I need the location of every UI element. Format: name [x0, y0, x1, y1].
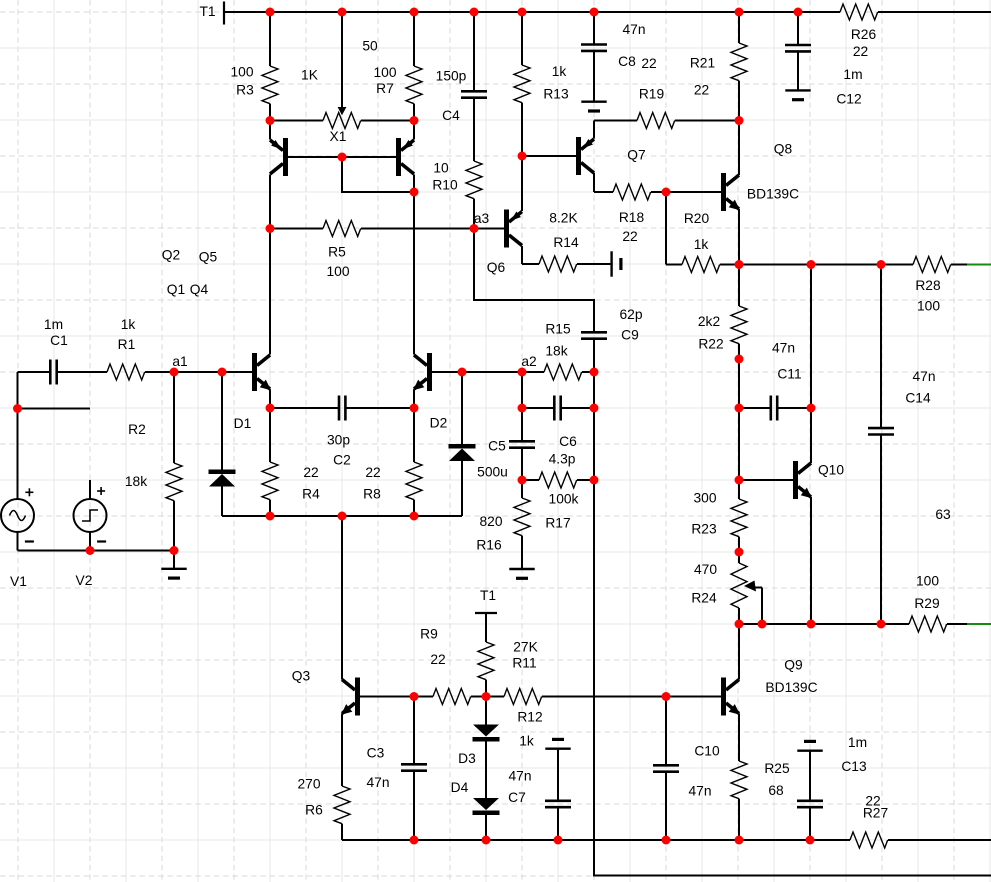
svg-text:10: 10	[433, 161, 449, 176]
wire R22 node down to Q10 base	[738, 408, 740, 480]
svg-text:C9: C9	[621, 328, 639, 343]
svg-text:1k: 1k	[552, 64, 567, 79]
svg-text:27K: 27K	[513, 640, 538, 655]
ground under C8	[581, 100, 606, 102]
capacitor C1	[18, 317, 108, 384]
svg-text:R15: R15	[545, 322, 571, 337]
svg-text:R17: R17	[545, 516, 570, 531]
svg-text:22: 22	[622, 229, 637, 244]
source V1	[1, 488, 34, 589]
resistor R27	[850, 794, 991, 848]
svg-text:1m: 1m	[848, 735, 867, 750]
resistor R8	[363, 408, 422, 516]
svg-text:C4: C4	[442, 108, 460, 123]
svg-text:R27: R27	[863, 806, 888, 821]
resistor R5	[270, 221, 474, 280]
wire V1 top	[17, 372, 19, 500]
ground above C7	[545, 748, 570, 750]
resistor R20	[666, 211, 739, 272]
svg-text:47n: 47n	[508, 769, 531, 784]
resistor R1	[107, 317, 252, 380]
svg-text:50: 50	[362, 39, 378, 54]
svg-text:100: 100	[916, 574, 939, 589]
diode D1	[209, 372, 252, 516]
wire Q5 collector column	[413, 175, 415, 355]
capacitor C4	[436, 12, 487, 161]
svg-text:R13: R13	[543, 87, 569, 102]
wire bottom frame	[593, 875, 991, 877]
svg-text:R26: R26	[851, 27, 877, 42]
svg-text:R19: R19	[639, 87, 665, 102]
transistor Q4	[190, 282, 522, 408]
resistor R13	[514, 12, 569, 156]
svg-text:R4: R4	[302, 487, 320, 502]
svg-text:18k: 18k	[125, 474, 147, 489]
svg-text:a3: a3	[474, 211, 490, 226]
junction dots	[266, 8, 275, 17]
wire bases to Q5 collector	[342, 157, 414, 192]
wire R18 node to Q8 base	[666, 191, 721, 193]
ground under C12	[785, 89, 810, 91]
capacitor C7	[508, 749, 571, 840]
port T1 top	[223, 2, 225, 25]
svg-text:47n: 47n	[772, 341, 795, 356]
svg-text:62p: 62p	[619, 307, 642, 322]
svg-text:47n: 47n	[912, 369, 935, 384]
svg-text:100: 100	[326, 264, 349, 279]
wire output green upper	[967, 264, 991, 266]
svg-text:BD139C: BD139C	[765, 680, 817, 695]
resistor R19	[594, 87, 739, 129]
svg-text:47n: 47n	[622, 22, 645, 37]
svg-text:D1: D1	[234, 416, 252, 431]
svg-text:C11: C11	[777, 367, 801, 382]
potentiometer X1	[270, 12, 414, 144]
wire top bus left	[224, 11, 840, 13]
capacitor C3	[366, 697, 427, 841]
svg-text:R28: R28	[915, 278, 941, 293]
resistor R29	[909, 574, 967, 632]
svg-text:R22: R22	[698, 337, 723, 352]
svg-text:C6: C6	[559, 434, 577, 449]
resistor R3	[230, 12, 278, 121]
svg-text:4.3p: 4.3p	[549, 452, 576, 467]
svg-text:Q10: Q10	[818, 463, 844, 478]
svg-text:100k: 100k	[549, 492, 579, 507]
svg-text:18k: 18k	[545, 344, 567, 359]
resistor R9	[414, 627, 486, 705]
svg-text:Q9: Q9	[784, 658, 803, 673]
transistor Q8	[721, 121, 799, 265]
svg-text:68: 68	[768, 783, 784, 798]
wire R18 node down	[665, 192, 667, 265]
svg-text:R18: R18	[619, 210, 645, 225]
wire V1 bottom	[17, 532, 19, 551]
diode D4	[451, 780, 500, 840]
resistor R28	[913, 257, 967, 314]
svg-text:R1: R1	[118, 337, 136, 352]
svg-text:R6: R6	[305, 803, 323, 818]
wire stub from V1 node	[18, 408, 91, 410]
svg-text:R23: R23	[691, 522, 717, 537]
svg-text:100: 100	[230, 65, 253, 80]
svg-text:47n: 47n	[688, 784, 711, 799]
capacitor C5	[477, 408, 535, 480]
svg-text:Q3: Q3	[292, 669, 311, 684]
svg-text:100: 100	[917, 299, 940, 314]
capacitor C13	[797, 735, 867, 840]
wire upper output rail	[739, 264, 913, 266]
capacitor C6	[522, 396, 594, 467]
ground right of R14	[610, 251, 612, 276]
wire feedback column lower	[593, 480, 595, 876]
transistor Q3	[292, 516, 414, 786]
resistor R25	[731, 761, 790, 840]
diode D3	[458, 697, 499, 799]
svg-text:8.2K: 8.2K	[549, 211, 578, 226]
svg-text:a1: a1	[172, 354, 187, 369]
svg-text:1k: 1k	[121, 317, 136, 332]
svg-text:Q4: Q4	[190, 282, 209, 297]
svg-text:R16: R16	[476, 538, 502, 553]
resistor R4	[262, 408, 320, 516]
svg-text:D2: D2	[430, 416, 448, 431]
svg-text:150p: 150p	[436, 69, 467, 84]
svg-text:D3: D3	[458, 751, 476, 766]
svg-text:300: 300	[693, 491, 716, 506]
svg-text:C10: C10	[694, 744, 720, 759]
source V2	[74, 487, 107, 588]
svg-text:22: 22	[694, 83, 709, 98]
port T1 bottom	[475, 612, 497, 614]
wire V2 bottom	[89, 532, 91, 551]
transistor Q7	[522, 121, 646, 193]
svg-text:Q6: Q6	[487, 260, 506, 275]
capacitor C11	[739, 341, 811, 421]
wire Q2 collector column	[269, 175, 271, 355]
capacitor C10	[653, 697, 720, 841]
svg-text:500u: 500u	[477, 465, 508, 480]
svg-text:47n: 47n	[366, 775, 389, 790]
svg-text:1m: 1m	[44, 317, 63, 332]
resistor R2	[125, 372, 182, 551]
wire feedback column	[593, 372, 595, 480]
resistor R11	[478, 613, 539, 697]
wire V2 top	[89, 480, 91, 500]
resistor R14	[522, 211, 610, 272]
svg-text:C1: C1	[50, 333, 68, 348]
wire a2 down	[521, 372, 523, 408]
svg-text:R12: R12	[517, 710, 542, 725]
wire R12 to Q9 base	[666, 696, 721, 698]
svg-text:30p: 30p	[327, 433, 350, 448]
svg-text:R14: R14	[553, 235, 579, 250]
svg-text:R8: R8	[363, 487, 381, 502]
svg-text:T1: T1	[480, 588, 496, 603]
resistor R21	[690, 12, 747, 121]
capacitor C12	[785, 12, 863, 107]
wire a3 to C9	[474, 229, 594, 333]
svg-text:1K: 1K	[301, 68, 319, 83]
ground G1	[161, 551, 186, 579]
svg-text:Q5: Q5	[199, 250, 218, 265]
capacitor C9	[581, 307, 643, 372]
ground above C13	[797, 750, 822, 752]
resistor R15	[522, 322, 594, 380]
diode D2	[430, 372, 476, 516]
transistor Q2	[162, 121, 288, 263]
potentiometer R24	[691, 552, 762, 624]
resistor R10	[432, 161, 482, 229]
svg-text:D4: D4	[451, 780, 469, 795]
resistor R22	[698, 265, 747, 409]
transistor Q9	[721, 624, 818, 761]
transistor Q6	[474, 156, 522, 275]
wire bottom-left rail	[18, 550, 175, 552]
svg-text:63: 63	[935, 507, 951, 522]
wire mid rail	[222, 515, 462, 517]
transistor Q5	[199, 121, 414, 265]
wire Q8-emitter rail to C11	[810, 265, 812, 409]
wire top bus right of R26	[878, 11, 991, 13]
svg-text:R24: R24	[691, 591, 717, 606]
resistor R17	[522, 472, 594, 531]
wire output rail	[739, 623, 909, 625]
wire bottom rail	[342, 839, 850, 841]
svg-text:22: 22	[641, 56, 656, 71]
svg-text:R9: R9	[420, 627, 438, 642]
svg-text:R5: R5	[328, 245, 346, 260]
resistor R7	[373, 12, 422, 121]
ground G2	[509, 568, 534, 570]
resistor R12	[486, 689, 666, 749]
resistor R6	[297, 777, 350, 840]
svg-text:C8: C8	[618, 54, 636, 69]
svg-text:R11: R11	[512, 656, 536, 671]
svg-text:C2: C2	[333, 453, 351, 468]
svg-text:1m: 1m	[843, 67, 862, 82]
svg-text:C3: C3	[367, 746, 385, 761]
svg-text:Q2: Q2	[162, 248, 180, 263]
svg-text:Q8: Q8	[774, 142, 793, 157]
wire output green lower	[967, 623, 991, 625]
svg-text:22: 22	[853, 44, 868, 59]
resistor R18	[594, 184, 666, 244]
svg-text:C13: C13	[841, 759, 867, 774]
svg-text:470: 470	[694, 562, 717, 577]
svg-text:Q1: Q1	[167, 282, 185, 297]
svg-text:1k: 1k	[694, 237, 709, 252]
svg-text:2k2: 2k2	[698, 314, 720, 329]
svg-text:1k: 1k	[519, 734, 534, 749]
svg-text:22: 22	[365, 465, 380, 480]
svg-text:22: 22	[430, 652, 445, 667]
capacitor C14	[868, 265, 951, 625]
svg-text:22: 22	[303, 465, 318, 480]
svg-text:R2: R2	[128, 422, 146, 437]
resistor R26	[840, 4, 878, 59]
wire base link Q2-Q5	[283, 156, 396, 158]
svg-text:a2: a2	[521, 354, 536, 369]
resistor R23	[691, 480, 747, 552]
svg-text:C7: C7	[508, 790, 526, 805]
svg-text:C12: C12	[836, 92, 861, 107]
svg-text:820: 820	[479, 514, 502, 529]
transistor Q10	[739, 408, 844, 624]
svg-text:T1: T1	[199, 4, 215, 19]
svg-text:R21: R21	[690, 56, 715, 71]
svg-text:R25: R25	[764, 761, 790, 776]
svg-text:V2: V2	[76, 573, 93, 588]
svg-text:X1: X1	[330, 129, 347, 144]
svg-text:R20: R20	[684, 211, 710, 226]
svg-text:R29: R29	[914, 596, 940, 611]
svg-text:C14: C14	[905, 391, 931, 406]
svg-text:R3: R3	[236, 83, 254, 98]
svg-text:V1: V1	[10, 574, 27, 589]
svg-text:C5: C5	[488, 439, 506, 454]
transistor Q1	[167, 282, 271, 408]
svg-text:100: 100	[373, 65, 396, 80]
resistor R16	[476, 480, 530, 569]
capacitor C8	[581, 12, 657, 101]
svg-text:270: 270	[297, 777, 320, 792]
svg-text:R10: R10	[432, 178, 458, 193]
capacitor C2	[270, 396, 414, 468]
svg-text:Q7: Q7	[627, 148, 645, 163]
svg-text:BD139C: BD139C	[747, 187, 799, 202]
svg-text:R7: R7	[376, 81, 394, 96]
